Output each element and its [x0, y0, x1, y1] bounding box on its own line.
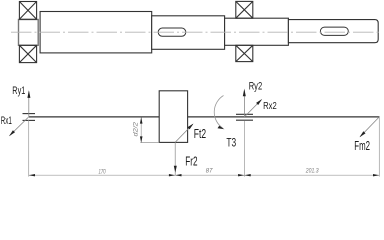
dimension 170 arrows	[29, 174, 176, 176]
bearing 1 upper box	[19, 2, 36, 20]
force Rx2 arrow	[244, 100, 261, 117]
force Ft2 arrow	[175, 124, 193, 142]
shaft journal right (bearing seat)	[225, 18, 289, 45]
bearing 2 lower box	[236, 45, 253, 61]
support 2 symbol	[236, 114, 253, 120]
svg-text:Rx2: Rx2	[263, 101, 277, 112]
centerline of shaft	[11, 31, 382, 33]
extension line support 1	[28, 120, 30, 177]
svg-text:Rx1: Rx1	[1, 115, 12, 127]
shaft end section with rounded end	[288, 20, 378, 43]
d2/2 extension line	[140, 142, 159, 144]
support 1 symbol	[23, 114, 36, 121]
force Fm2 arrow	[360, 117, 379, 137]
svg-text:T3: T3	[226, 136, 236, 150]
dimension line bottom	[29, 174, 380, 176]
keyway slot on end section	[320, 27, 348, 35]
svg-text:201.3: 201.3	[305, 168, 319, 175]
svg-text:170: 170	[99, 168, 106, 175]
torque T3 arc	[214, 96, 223, 129]
dimension 87 arrows	[175, 174, 244, 176]
bearing 1 lower box	[19, 45, 36, 62]
force Ry2 arrow	[243, 91, 245, 117]
extension line support 2	[243, 121, 245, 177]
d2/2 dimension line	[140, 118, 142, 143]
shaft gear seat section	[152, 16, 225, 50]
shaft journal left (bearing seat)	[19, 20, 39, 46]
gear (load) rectangle	[159, 91, 187, 143]
force Rx1 arrow	[10, 117, 29, 136]
beam (shaft axis, load diagram)	[29, 116, 380, 118]
svg-text:87: 87	[206, 168, 213, 175]
keyway slot on gear seat	[158, 28, 186, 36]
extension line beam right end	[378, 117, 380, 176]
svg-text:Ft2: Ft2	[194, 126, 206, 141]
svg-text:d2/2: d2/2	[133, 122, 140, 137]
svg-text:Fm2: Fm2	[354, 138, 370, 153]
dimension 201.3 arrows	[244, 174, 379, 176]
svg-text:Fr2: Fr2	[185, 154, 197, 168]
force Ry1 arrow	[28, 92, 30, 117]
shaft big section	[40, 12, 152, 53]
svg-text:Ry2: Ry2	[249, 81, 263, 93]
bearing 2 upper box	[236, 1, 253, 18]
svg-text:Ry1: Ry1	[12, 85, 25, 97]
force Fr2 arrow	[174, 142, 176, 175]
